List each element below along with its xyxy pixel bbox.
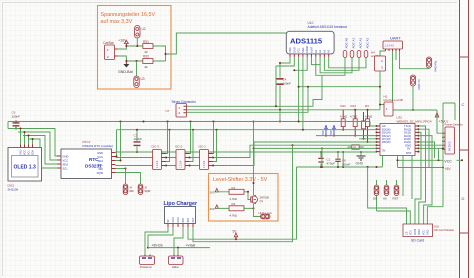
module Lipo Charger — [164, 201, 198, 227]
wire C4 branch to bus A — [279, 110, 281, 123]
svg-text:VCC: VCC — [63, 158, 69, 162]
svg-text:+V-Bat: +V-Bat — [186, 244, 196, 248]
svg-text:SDA: SDA — [31, 150, 34, 155]
wire I2C-3 taps — [166, 122, 170, 162]
svg-text:ADC A3: ADC A3 — [365, 37, 369, 48]
wire lipo 5V to Power-In — [145, 227, 168, 256]
pad D0 — [373, 180, 379, 211]
wire strom aux — [187, 66, 323, 107]
capacitor C9 — [12, 111, 21, 130]
resistor R1 — [229, 186, 244, 201]
svg-text:+5V-DS: +5V-DS — [152, 244, 163, 248]
wire lipo GND to +5V-DS node — [147, 227, 173, 249]
svg-text:ADC A0: ADC A0 — [344, 37, 348, 48]
svg-text:SDA: SDA — [63, 162, 69, 166]
pad PAD-RX — [427, 57, 438, 72]
wire left nest line D — [23, 136, 57, 165]
svg-text:Power-In: Power-In — [140, 265, 152, 269]
capacitor C7 — [134, 129, 143, 153]
wire lipo BAT to Akku — [174, 227, 183, 256]
svg-text:R4: R4 — [365, 104, 369, 108]
wire GND net lower — [297, 156, 383, 169]
svg-text:1 2 3 4: 1 2 3 4 — [203, 160, 206, 168]
svg-text:ALRT: ALRT — [310, 46, 314, 53]
wire OLED VCC tap — [24, 131, 26, 148]
svg-text:GND-Bat: GND-Bat — [118, 70, 133, 74]
pad ADC A1 — [350, 37, 355, 57]
wire wemos GND to selector — [419, 144, 443, 146]
svg-text:GND: GND — [172, 217, 175, 223]
wire RTC VCC riser — [116, 130, 118, 158]
wire RTC 32K stub — [116, 168, 127, 170]
wire 3V3 to R1 to gate — [217, 191, 250, 200]
connector I2C-2 — [175, 144, 190, 169]
svg-text:R12: R12 — [351, 104, 357, 108]
svg-text:5V: 5V — [167, 219, 170, 222]
pad A0 — [383, 180, 389, 201]
svg-text:I2C-2: I2C-2 — [175, 144, 183, 148]
wire SD GND feed — [427, 207, 443, 224]
svg-text:ADS1115: ADS1115 — [290, 37, 323, 46]
svg-text:3V3: 3V3 — [330, 130, 333, 135]
svg-text:SQW: SQW — [97, 171, 104, 175]
svg-text:SD Card: SD Card — [411, 239, 424, 243]
wire RTC SDA weave — [116, 144, 377, 158]
connector Power-In — [140, 255, 155, 270]
svg-text:WEMOS_D1_MINI_PRO4: WEMOS_D1_MINI_PRO4 — [397, 119, 432, 123]
pad PAD-TX — [411, 75, 422, 111]
svg-text:OUT: OUT — [192, 217, 195, 223]
svg-text:1 2 3 4 5: 1 2 3 4 5 — [385, 45, 395, 48]
svg-text:4.7kΩ: 4.7kΩ — [230, 197, 237, 201]
resistor R5 — [362, 112, 366, 139]
svg-text:5V: 5V — [407, 147, 411, 151]
ground GND wemos — [356, 151, 366, 166]
wire ADS A1 to pad — [320, 57, 352, 73]
wire Q1 source to High-Logic — [254, 204, 261, 217]
wire pullup rail — [187, 109, 381, 111]
svg-text:GND: GND — [426, 229, 429, 235]
wire UART pin3 down to +5V rail — [392, 51, 394, 110]
supply +5V top right — [435, 110, 445, 133]
wire 3V3 to R2 to source — [217, 207, 255, 209]
connector H4 — [371, 51, 386, 72]
pad ADC A3 — [364, 37, 369, 57]
connector I2C-3 — [152, 144, 167, 169]
svg-text:SQW: SQW — [144, 189, 151, 193]
supply +16V — [118, 39, 128, 47]
svg-text:5V 3V G: 5V 3V G — [449, 141, 452, 151]
wire R11 bottom to SDA bus — [342, 129, 344, 131]
module RTC1 DS3231 — [57, 140, 116, 179]
svg-text:U16: U16 — [434, 225, 439, 229]
svg-text:32K: 32K — [129, 189, 134, 193]
svg-text:SDA: SDA — [301, 47, 305, 53]
wire OLED SCL tap — [28, 135, 30, 148]
svg-text:UART: UART — [390, 36, 401, 41]
wire ADS SDA down to bus — [302, 57, 304, 130]
wire RTC GND row — [116, 151, 377, 153]
svg-text:3V3: 3V3 — [322, 130, 325, 135]
supply 3V3 level a — [210, 189, 219, 195]
junction at GND-Bat node — [125, 60, 137, 62]
svg-text:PAD-Rx: PAD-Rx — [434, 60, 438, 71]
svg-text:A2: A2 — [322, 49, 326, 53]
svg-text:OLED 1.3: OLED 1.3 — [14, 165, 36, 171]
svg-text:100nF: 100nF — [134, 137, 143, 141]
wire wemos bottom riser b — [411, 156, 413, 200]
wire fuse U2 to +16V rail — [136, 38, 138, 46]
connector CarBat — [103, 41, 118, 60]
svg-text:MISO: MISO — [418, 229, 421, 235]
wire strom pin3 — [187, 86, 310, 113]
svg-text:I2C-Pulup en/dP: I2C-Pulup en/dP — [384, 98, 404, 102]
svg-text:VCC: VCC — [444, 160, 452, 164]
wire CarBat pin1 to R31 — [118, 46, 143, 49]
svg-text:4.7kΩ: 4.7kΩ — [365, 114, 372, 118]
svg-text:47: 47 — [353, 146, 357, 150]
resistor R12 — [350, 104, 357, 136]
resistor R32 — [143, 54, 153, 69]
wire bus A 3V3 long — [8, 121, 377, 127]
transistor Q1 2N7000 — [251, 196, 270, 204]
connector U1 Power-Selector — [442, 120, 463, 155]
wire left nest line E — [28, 139, 57, 168]
wire I2C-2 taps — [190, 122, 194, 162]
svg-text:RTC: RTC — [89, 157, 99, 162]
svg-text:3V: 3V — [382, 149, 386, 153]
svg-text:ADDR: ADDR — [305, 46, 309, 53]
resistor R31 — [143, 40, 153, 54]
pad High-Logic — [259, 211, 273, 219]
capacitor C1 470uF — [318, 151, 335, 167]
svg-text:A3: A3 — [327, 49, 331, 53]
wire CarBat pin2 to R32 — [118, 56, 143, 61]
svg-text:3V3: 3V3 — [210, 190, 215, 194]
svg-text:SH1106: SH1106 — [8, 188, 19, 192]
ground GND-Bat — [118, 61, 133, 74]
connector U7 Strom-Connector — [166, 100, 197, 117]
wire bus B GND long — [117, 129, 377, 131]
wire wemos bottom riser a — [402, 156, 404, 197]
frame right border — [460, 0, 469, 278]
svg-text:SD-Card Module: SD-Card Module — [434, 228, 455, 232]
svg-text:D: D — [462, 196, 465, 201]
wire wemos TX to SD feed — [419, 126, 426, 224]
svg-text:SCL: SCL — [27, 150, 30, 155]
svg-text:I2C-1: I2C-1 — [199, 144, 207, 148]
svg-text:100nF: 100nF — [12, 115, 21, 119]
wire 5V riser right — [442, 103, 455, 207]
pad ADC A2 — [357, 37, 362, 57]
svg-text:Adafruit ADS1115 breakout: Adafruit ADS1115 breakout — [308, 25, 348, 29]
svg-text:4.7kΩ: 4.7kΩ — [350, 114, 357, 118]
svg-text:C: C — [462, 102, 465, 107]
pad RST — [393, 180, 399, 201]
svg-text:U3: U3 — [141, 77, 145, 81]
connector UART — [383, 36, 403, 52]
svg-text:auf max 3,3V: auf max 3,3V — [101, 19, 133, 25]
capacitor C8 100nF — [335, 151, 350, 167]
wire lipo OUT rail — [193, 145, 293, 242]
wire OLED GND tap — [20, 128, 22, 148]
wire H4 to H1 and pullup bus — [298, 71, 384, 110]
wire ADS SCL down to bus — [298, 57, 300, 122]
junction at +16V node — [125, 45, 138, 47]
wire lipo BAT2 rail — [188, 167, 297, 240]
wire ADS A3 to pad — [329, 57, 366, 68]
supply 3V3 arrow b — [330, 126, 336, 137]
svg-text:GND: GND — [292, 47, 296, 53]
svg-text:CS: CS — [406, 231, 409, 235]
wire wemos D4 right — [419, 142, 435, 158]
wire I2C-1 taps — [213, 122, 217, 162]
svg-text:Akku: Akku — [172, 265, 179, 269]
capacitor C4 — [277, 62, 292, 110]
svg-text:U2: U2 — [142, 27, 146, 31]
wire ADS GND down-left — [276, 57, 294, 66]
svg-text:I2C-3: I2C-3 — [152, 144, 160, 148]
svg-text:CarBat: CarBat — [103, 41, 114, 45]
svg-text:VCC: VCC — [23, 150, 26, 155]
frame Spannungsteiler box — [98, 6, 172, 90]
svg-text:D8(15): D8(15) — [382, 140, 391, 144]
svg-text:SCL: SCL — [63, 166, 69, 170]
wire UART pin1 to H4 — [380, 51, 386, 56]
svg-text:R11: R11 — [341, 104, 347, 108]
wire ADS VDD down-left — [280, 57, 290, 63]
svg-text:DS3231 RTC (module): DS3231 RTC (module) — [83, 144, 113, 148]
wire divider output to ADS1115 — [153, 33, 286, 61]
svg-text:4.7kΩ: 4.7kΩ — [230, 214, 237, 218]
svg-text:1 2 3 4: 1 2 3 4 — [180, 160, 183, 168]
svg-text:VDD: VDD — [288, 47, 292, 53]
svg-text:U7: U7 — [166, 109, 170, 113]
pad J5 SQW — [138, 184, 151, 195]
wire +5V-DS rail — [148, 244, 210, 249]
wire +5V rail top — [393, 109, 438, 111]
svg-text:SCL: SCL — [297, 47, 301, 53]
module U16 SD-Card — [403, 224, 455, 243]
svg-text:ADC A1: ADC A1 — [351, 37, 355, 48]
frame Level-Shifter box — [209, 174, 279, 222]
wire level drain bus — [254, 147, 377, 149]
wire SD CS feed — [368, 167, 407, 224]
svg-text:BAT: BAT — [182, 217, 185, 222]
wire R5 bottom to bus — [363, 138, 365, 140]
wire riser to bus from 322 — [321, 147, 323, 167]
wire Q1 drain up out of box — [253, 121, 255, 196]
svg-text:MOSI: MOSI — [414, 229, 417, 235]
connector I2C-1 — [199, 144, 214, 169]
svg-text:Spannungsteiler 16,5V: Spannungsteiler 16,5V — [101, 12, 156, 18]
op-amp module U10 ADS1115 breakout — [286, 21, 347, 57]
svg-text:+5V: +5V — [439, 120, 446, 124]
supply 3V3 arrow a — [322, 126, 328, 137]
svg-text:100nF: 100nF — [283, 82, 292, 86]
wire RTC SQW to pad — [116, 173, 141, 185]
svg-text:BAT: BAT — [187, 217, 190, 222]
pad ADC A0 — [343, 37, 348, 57]
svg-text:GND: GND — [63, 154, 69, 158]
svg-text:1 2 3 4: 1 2 3 4 — [156, 160, 159, 168]
resistor R3 47 — [348, 145, 364, 150]
resistor R2 — [229, 202, 244, 218]
wire R5 bus — [359, 138, 377, 140]
svg-text:VCC: VCC — [423, 230, 426, 235]
wire RTC SDA riser — [116, 122, 122, 162]
svg-text:A0: A0 — [383, 197, 387, 201]
svg-text:RST: RST — [393, 197, 399, 201]
wire ADS A2 to pad — [324, 57, 359, 70]
pad J4 32k — [123, 169, 134, 195]
fuse U2 — [135, 26, 146, 39]
wire UART pin5 to PAD-RX — [400, 51, 430, 69]
wire SD SCK feed — [377, 211, 411, 224]
wire RTC SCL weave — [116, 142, 377, 167]
svg-text:A1: A1 — [318, 49, 322, 53]
supply 3V3 level b — [210, 205, 219, 211]
connector Akku — [169, 255, 184, 270]
display DIS1 OLED 1.3 — [8, 148, 42, 192]
connector H1 I2C pullup enable — [384, 95, 404, 117]
wire left nest line C — [18, 132, 57, 160]
svg-text:Q1: Q1 — [260, 199, 264, 203]
resistor R4 — [365, 104, 372, 142]
wire wemos bottom pin to VCC rail — [397, 149, 464, 167]
svg-text:D0: D0 — [373, 197, 377, 201]
wire left nest line B — [8, 122, 57, 157]
wire ADS A0 to pad — [316, 57, 345, 75]
supply 5V bottom — [233, 230, 238, 240]
wire R12 bottom to bus — [354, 135, 356, 137]
svg-text:RST: RST — [406, 151, 412, 155]
svg-text:R32: R32 — [143, 54, 149, 58]
wire wemos RX — [419, 129, 430, 167]
svg-text:Level-Shifter 3.3V - 5V: Level-Shifter 3.3V - 5V — [213, 177, 268, 183]
svg-text:PAD-Tx: PAD-Tx — [417, 79, 421, 90]
svg-text:SCK: SCK — [409, 230, 412, 235]
wire 3V3 mid bus — [316, 135, 377, 137]
svg-text:470uF: 470uF — [327, 162, 336, 166]
svg-text:A0: A0 — [314, 49, 318, 53]
svg-text:GND: GND — [356, 162, 364, 166]
wire wemos D2 to SD — [419, 136, 433, 224]
fuse U3 — [134, 61, 145, 88]
module U32 WEMOS D1 MINI — [376, 116, 432, 156]
display DIS1 OLED 1.3 pins — [21, 145, 33, 148]
wire wemos D1 to SD — [415, 132, 421, 224]
svg-text:R2: R2 — [232, 202, 236, 206]
wire ADS ADDR stub — [293, 57, 307, 71]
svg-text:GND: GND — [19, 149, 22, 155]
svg-text:H1: H1 — [384, 95, 388, 99]
svg-text:GND: GND — [177, 217, 180, 223]
wire Akku pin2 — [177, 248, 179, 256]
supply +5V lower right — [398, 167, 452, 171]
wire ADS ALRT stub — [312, 57, 321, 65]
svg-text:DS3231: DS3231 — [85, 164, 102, 169]
svg-text:ADC A2: ADC A2 — [358, 37, 362, 48]
wire R4 bottom to bus — [367, 141, 369, 143]
svg-text:2k: 2k — [145, 65, 149, 69]
svg-text:Power-Selector: Power-Selector — [445, 123, 463, 127]
svg-text:+5V: +5V — [445, 167, 452, 171]
wire OLED SDA tap — [32, 138, 34, 148]
svg-text:3V3: 3V3 — [210, 207, 215, 211]
wire wemos 5V right — [419, 147, 444, 149]
resistor R11 — [340, 104, 347, 130]
svg-text:GND: GND — [97, 151, 103, 155]
wire UART pin4 stub — [395, 51, 397, 60]
wire riser 343 — [342, 151, 344, 167]
